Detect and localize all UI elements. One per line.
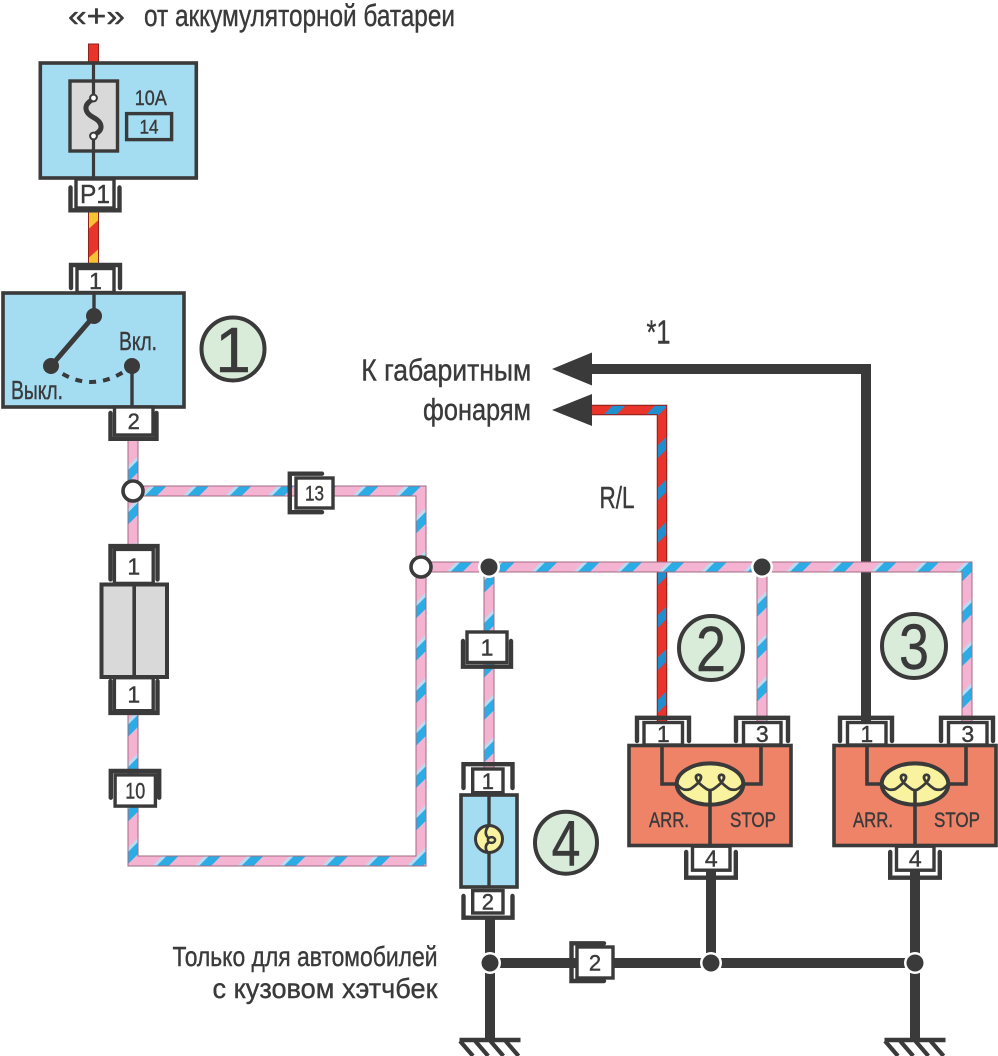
svg-text:Выкл.: Выкл. <box>11 375 63 405</box>
svg-text:от аккумуляторной батареи: от аккумуляторной батареи <box>144 0 455 33</box>
svg-text:3: 3 <box>756 721 769 747</box>
svg-text:STOP: STOP <box>730 809 776 832</box>
svg-text:ARR.: ARR. <box>649 809 689 832</box>
svg-text:Вкл.: Вкл. <box>119 326 157 356</box>
svg-text:2: 2 <box>589 951 601 976</box>
svg-text:с кузовом хэтчбек: с кузовом хэтчбек <box>213 973 439 1004</box>
svg-text:4: 4 <box>705 846 718 872</box>
svg-text:1: 1 <box>657 721 670 747</box>
svg-text:3: 3 <box>899 611 929 683</box>
svg-text:3: 3 <box>961 721 974 747</box>
svg-text:1: 1 <box>127 682 140 708</box>
svg-text:ARR.: ARR. <box>853 809 893 832</box>
svg-text:STOP: STOP <box>934 809 980 832</box>
svg-text:10A: 10A <box>135 86 168 110</box>
svg-text:1: 1 <box>860 721 873 747</box>
svg-text:4: 4 <box>909 846 922 872</box>
svg-text:R/L: R/L <box>600 480 635 515</box>
svg-text:Только для автомобилей: Только для автомобилей <box>173 941 438 972</box>
svg-text:*1: *1 <box>647 314 671 351</box>
svg-text:10: 10 <box>125 778 145 803</box>
svg-text:К габаритным: К габаритным <box>361 353 531 388</box>
svg-text:«+»: «+» <box>68 0 125 33</box>
svg-text:1: 1 <box>127 554 140 580</box>
svg-text:14: 14 <box>140 118 159 139</box>
svg-text:фонарям: фонарям <box>423 392 531 427</box>
svg-text:2: 2 <box>696 613 726 685</box>
svg-text:2: 2 <box>128 409 140 434</box>
svg-text:P1: P1 <box>80 179 110 209</box>
svg-text:4: 4 <box>552 808 581 880</box>
svg-text:1: 1 <box>89 268 102 294</box>
svg-text:13: 13 <box>305 483 324 506</box>
svg-text:1: 1 <box>481 635 494 661</box>
svg-text:1: 1 <box>482 769 494 794</box>
svg-text:2: 2 <box>482 890 494 915</box>
svg-text:1: 1 <box>215 314 251 386</box>
